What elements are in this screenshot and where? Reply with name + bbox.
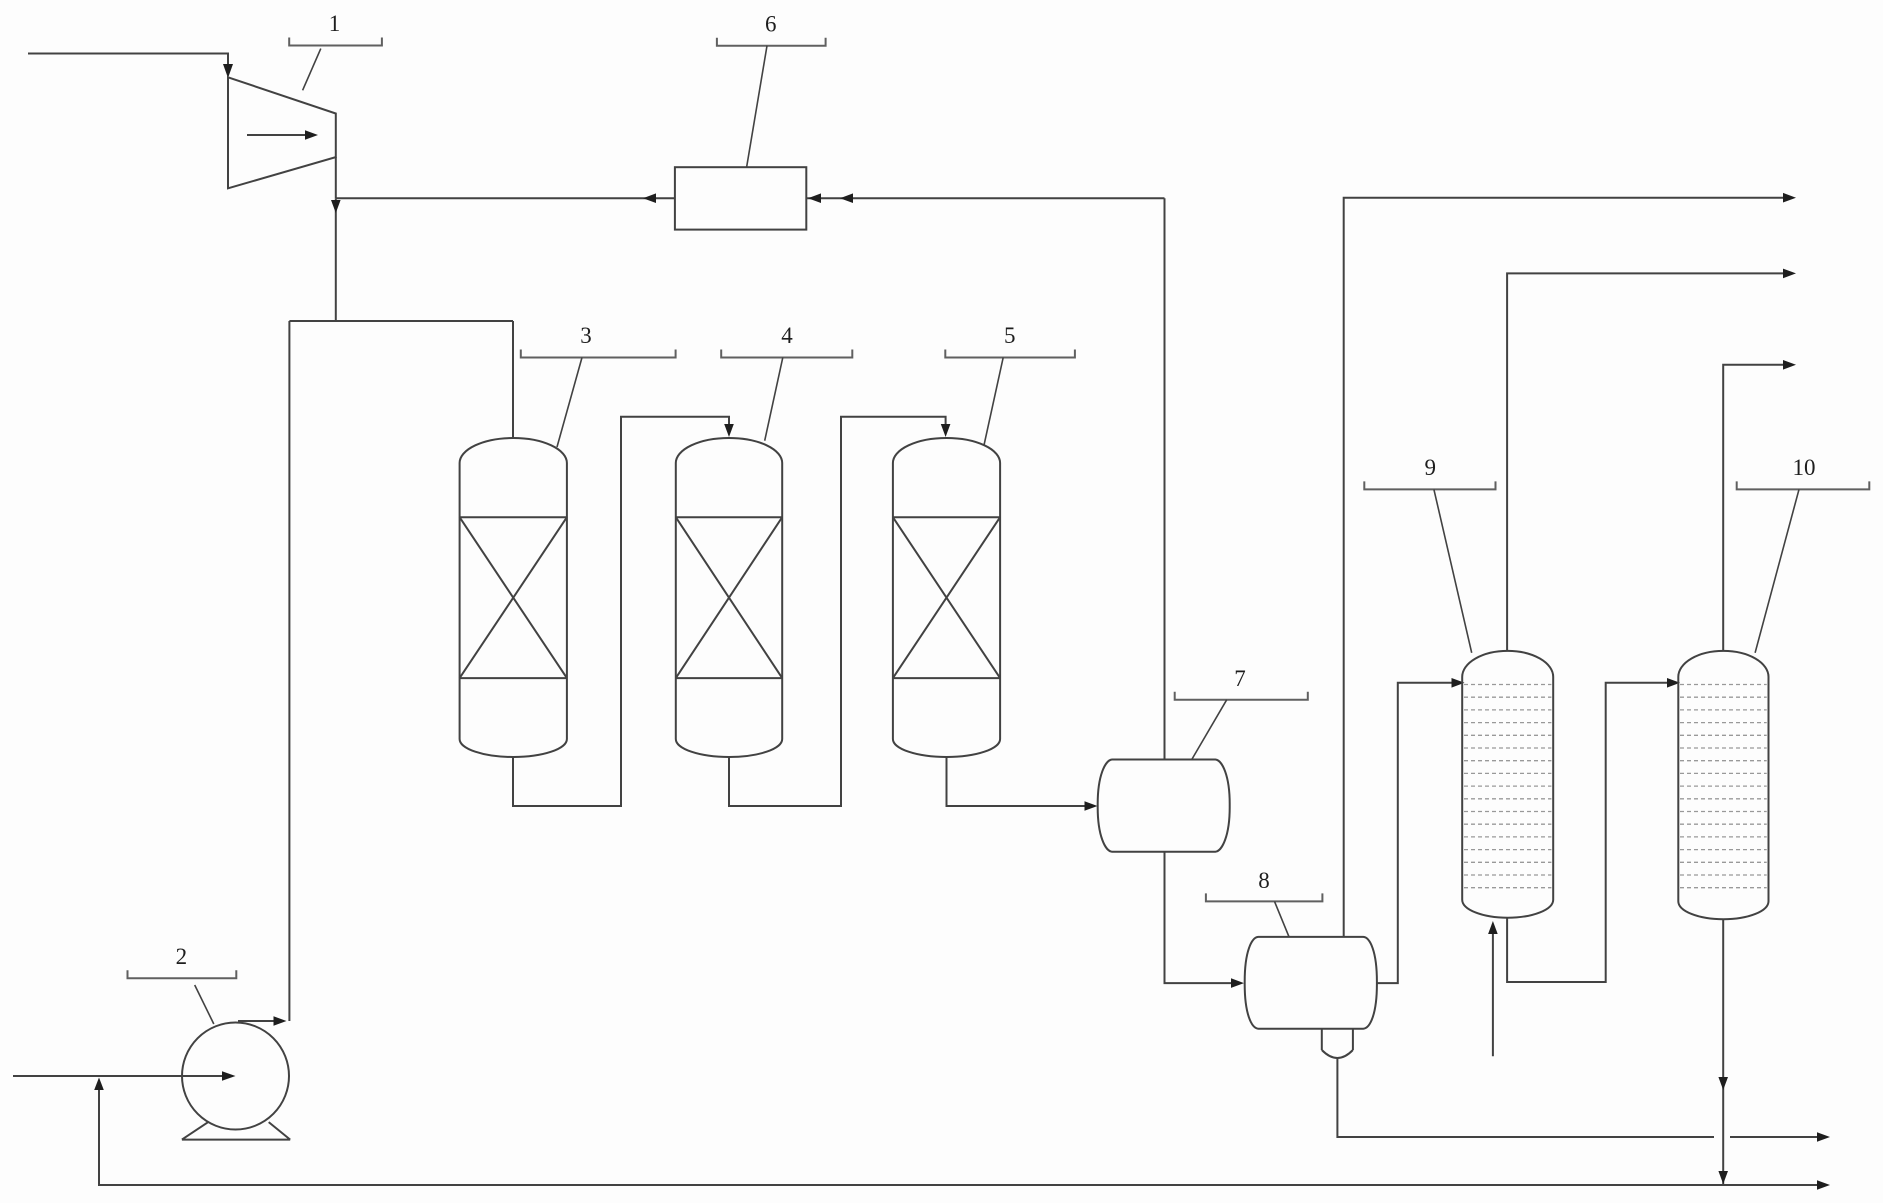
reactor 5 packing top line: [893, 516, 1000, 518]
label 6 bracket: [717, 38, 826, 46]
label 7 leader: [1191, 700, 1226, 760]
wire reactor 4 outlet to reactor 5: [729, 417, 946, 806]
wire pump discharge: [238, 1020, 274, 1022]
svg-text:6: 6: [765, 11, 777, 36]
wire drum 8 liquid to column 9: [1377, 683, 1452, 983]
wire drum 7 overhead gas riser: [1164, 198, 1166, 759]
pump 2 casing circle: [182, 1023, 289, 1130]
label 9 leader: [1434, 489, 1472, 652]
reactor 5 packing bottom line: [893, 677, 1000, 679]
reactor 3 packing X cross: [460, 517, 567, 678]
compressor 1 internal flow arrow: [247, 130, 318, 140]
label 1 leader: [303, 49, 321, 91]
wire reactor 3 outlet to reactor 4: [513, 417, 729, 806]
wire line B bottom recycle header: [99, 1090, 1817, 1185]
wire column 9 stripping gas inlet: [1492, 934, 1494, 1056]
arrow on recycle line pointing left: [643, 193, 656, 203]
arrow pump discharge right: [274, 1016, 287, 1026]
heat exchanger 6: [675, 167, 806, 229]
column 9 vessel: [1462, 651, 1553, 918]
wire drum 8 overhead gas to top product: [1344, 198, 1783, 937]
arrow up into column 9 bottom: [1488, 921, 1498, 934]
wire drum 7 liquid to drum 8: [1165, 852, 1232, 983]
label 2 bracket: [128, 970, 237, 978]
arrow second on HX6 right line pointing left: [840, 193, 853, 203]
wire reactor 5 outlet to drum 7: [947, 757, 1085, 806]
svg-text:7: 7: [1234, 666, 1246, 691]
wire reactor 3 feed drop: [512, 321, 514, 438]
wire column 9 overhead gas to product: [1507, 273, 1783, 651]
wire pump discharge riser: [288, 321, 290, 1021]
wire mixing header to reactor 3: [289, 320, 513, 322]
arrow into reactor 5 top: [941, 424, 951, 437]
reactor 4 packing bottom line: [676, 677, 782, 679]
arrow top product 3: [1783, 360, 1796, 370]
arrow into column 9 feed: [1452, 678, 1465, 688]
wire drum 8 bottoms line A: [1337, 1058, 1817, 1137]
drum 7 separator: [1098, 760, 1230, 852]
label 1 bracket: [289, 38, 382, 46]
arrow into column 10 feed: [1667, 678, 1680, 688]
wire mixed feed downcomer: [335, 198, 337, 321]
arrow line A right end: [1817, 1132, 1830, 1142]
label 2 leader: [195, 985, 214, 1024]
wire column 9 bottoms to column 10 feed: [1507, 683, 1667, 982]
label 10 leader: [1755, 489, 1799, 652]
column 10 trays dashed: [1680, 685, 1767, 888]
wire feed inlet top-left: [28, 54, 228, 66]
svg-text:9: 9: [1424, 455, 1436, 480]
arrow line B right end: [1817, 1180, 1830, 1190]
arrow top product 2: [1783, 269, 1796, 279]
label 8 leader: [1275, 901, 1290, 936]
arrow downward on downcomer: [331, 200, 341, 213]
label 4 bracket: [721, 350, 852, 358]
wire column 10 overhead gas to product: [1723, 365, 1783, 651]
label 5 bracket: [945, 350, 1075, 358]
wire pump suction inlet: [13, 1075, 222, 1077]
arrow into reactor 4 top: [724, 424, 734, 437]
arrow into drum 7 inlet: [1085, 801, 1098, 811]
arrow up into pump suction junction: [94, 1078, 104, 1091]
label 4 leader: [765, 358, 783, 441]
wire column 10 bottoms down: [1722, 919, 1724, 1185]
svg-text:3: 3: [580, 323, 592, 348]
svg-text:1: 1: [329, 11, 341, 36]
column 9 trays dashed: [1464, 685, 1551, 888]
drum 8 bottom nozzle: [1322, 1029, 1353, 1058]
label 9 bracket: [1364, 481, 1495, 489]
wire compressor outlet down: [335, 157, 337, 198]
svg-text:5: 5: [1004, 323, 1016, 348]
arrow into drum 8 inlet: [1231, 978, 1244, 988]
wire recycle gas HX6 to compressor: [336, 197, 675, 199]
reactor 4 packing X cross: [676, 517, 782, 678]
arrow top product 1: [1783, 193, 1796, 203]
reactor 5 vessel: [893, 438, 1000, 757]
pump 2 pedestal: [182, 1122, 290, 1140]
reactor 4 packing top line: [676, 516, 782, 518]
arrow at HX6 right edge pointing left: [808, 193, 821, 203]
arrow down on column 10 bottoms at line B: [1718, 1171, 1728, 1184]
svg-text:10: 10: [1793, 455, 1816, 480]
svg-text:8: 8: [1258, 868, 1270, 893]
arrow down on column 10 bottoms upper: [1718, 1077, 1728, 1090]
reactor 3 packing bottom line: [460, 677, 567, 679]
label 3 bracket: [521, 350, 676, 358]
drum 8 separator: [1245, 937, 1377, 1029]
arrow into compressor inlet: [223, 64, 233, 78]
reactor 5 packing X cross: [893, 517, 1000, 678]
label 5 leader: [984, 358, 1003, 445]
label 10 bracket: [1737, 481, 1870, 489]
label 3 leader: [557, 358, 582, 448]
reactor 3 packing top line: [460, 516, 567, 518]
wire drum 7 gas to HX6: [806, 197, 1164, 199]
label 8 bracket: [1206, 893, 1323, 901]
svg-text:4: 4: [781, 323, 793, 348]
column 10 vessel: [1678, 651, 1768, 919]
reactor 3 vessel: [460, 438, 567, 757]
label 6 leader: [747, 46, 767, 167]
compressor 1 body: [228, 77, 336, 188]
svg-text:2: 2: [176, 944, 188, 969]
reactor 4 vessel: [676, 438, 782, 757]
label 7 bracket: [1175, 692, 1308, 700]
arrow into pump center: [222, 1071, 236, 1081]
